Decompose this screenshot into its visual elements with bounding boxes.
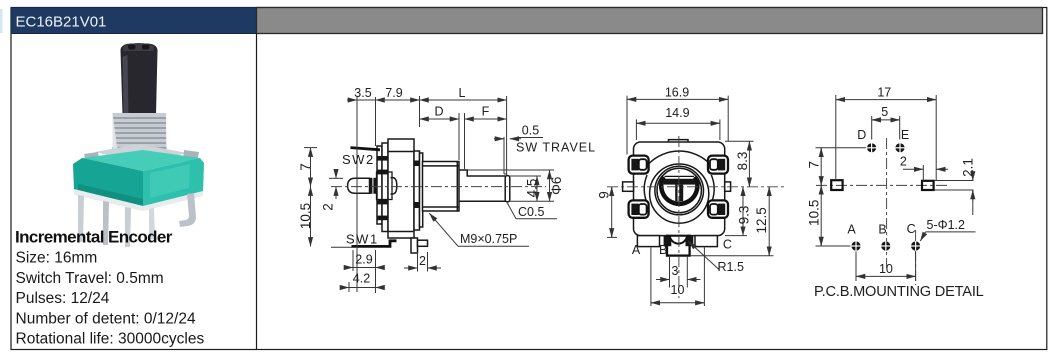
side view dim 2 (foot) xyxy=(404,252,441,272)
pcb hole D xyxy=(867,143,877,153)
side view dim 7 / 10.5 xyxy=(304,148,317,247)
svg-text:14.9: 14.9 xyxy=(665,106,689,120)
svg-text:SW2: SW2 xyxy=(342,152,375,167)
pcb hole A xyxy=(851,241,861,251)
svg-text:C0.5: C0.5 xyxy=(518,205,544,219)
page corner sliver xyxy=(0,9,3,33)
svg-text:Incremental Encoder: Incremental Encoder xyxy=(15,227,173,246)
front boss side arcs xyxy=(644,175,648,205)
svg-text:2: 2 xyxy=(419,254,426,268)
svg-text:2: 2 xyxy=(321,203,336,211)
svg-text:B: B xyxy=(659,243,667,257)
svg-text:4.5: 4.5 xyxy=(525,179,540,198)
side view dim 4.2 xyxy=(341,282,384,292)
front top bump xyxy=(669,140,689,142)
side view dark bands xyxy=(378,156,420,220)
svg-text:P.C.B.MOUNTING DETAIL: P.C.B.MOUNTING DETAIL xyxy=(814,284,984,300)
pcb hole E xyxy=(895,143,905,153)
pcb dim 5 xyxy=(872,116,900,140)
svg-text:A: A xyxy=(847,222,856,236)
front dim 9.3 xyxy=(725,187,747,236)
front outer circles xyxy=(655,166,704,215)
svg-text:2.1: 2.1 xyxy=(960,158,975,177)
svg-text:7: 7 xyxy=(298,163,313,171)
side view SW1 reference line xyxy=(331,246,352,248)
side view label C0.5 xyxy=(507,203,557,219)
photo base white rim xyxy=(74,189,203,211)
pcb dim 2.1 xyxy=(935,171,974,216)
svg-text:Φ6: Φ6 xyxy=(549,177,564,195)
pcb dim 7 / 10.5 xyxy=(816,148,867,246)
pcb dim 10 xyxy=(856,252,916,282)
side view extension lines xyxy=(357,96,554,293)
side view bushing M9 xyxy=(423,162,460,212)
svg-text:Switch Travel: 0.5mm: Switch Travel: 0.5mm xyxy=(16,270,164,287)
svg-text:10: 10 xyxy=(671,283,685,297)
side view dim 0.5 SW TRAVEL xyxy=(494,138,543,139)
front dim 14.9 xyxy=(636,119,720,140)
svg-text:R1.5: R1.5 xyxy=(718,260,744,274)
side view SW1 lever xyxy=(352,241,397,247)
side view dim 2.9 xyxy=(345,250,384,271)
svg-text:SW TRAVEL: SW TRAVEL xyxy=(516,141,596,155)
svg-text:12.5: 12.5 xyxy=(754,207,769,233)
photo threaded bushing xyxy=(113,113,167,150)
side view centerline xyxy=(331,186,546,188)
front boss circle xyxy=(650,164,709,223)
svg-text:7: 7 xyxy=(807,161,822,169)
svg-text:0.5: 0.5 xyxy=(522,124,539,138)
pcb centerlines xyxy=(886,138,888,268)
side view dim phi6 xyxy=(549,170,551,201)
photo black knurled shaft xyxy=(121,44,158,116)
svg-text:9.3: 9.3 xyxy=(737,206,752,225)
svg-text:3.5: 3.5 xyxy=(354,86,371,100)
pcb square holes xyxy=(831,180,842,190)
side view dim 2 (pin offset) xyxy=(329,170,343,200)
side view mounting leg and foot xyxy=(411,238,428,253)
svg-text:10.5: 10.5 xyxy=(298,203,313,229)
svg-text:M9×0.75P: M9×0.75P xyxy=(460,232,517,246)
front corner tabs xyxy=(629,156,728,218)
front center detent box xyxy=(664,235,694,256)
front dim 16.9 xyxy=(627,96,728,155)
svg-text:17: 17 xyxy=(877,86,891,100)
svg-text:A: A xyxy=(632,243,641,257)
side view dim 3.5 7.9 L xyxy=(347,99,507,101)
pcb hole B xyxy=(881,241,891,251)
svg-text:10: 10 xyxy=(879,262,893,276)
photo bent hook pin xyxy=(179,193,196,227)
svg-text:E: E xyxy=(901,128,909,142)
pcb label 5-phi1.2 xyxy=(920,232,975,241)
svg-text:2: 2 xyxy=(900,155,907,169)
front body square xyxy=(634,142,725,236)
header blue bar EC16B21V01 xyxy=(11,8,257,34)
photo metal top plate xyxy=(95,144,187,164)
front dim 10 xyxy=(651,248,705,307)
svg-text:7.9: 7.9 xyxy=(385,86,402,100)
front T slot xyxy=(664,176,695,201)
pcb dim 2 xyxy=(903,165,948,181)
svg-text:4.2: 4.2 xyxy=(353,272,370,286)
front dim 12.5 xyxy=(690,187,774,256)
svg-text:F: F xyxy=(482,105,490,119)
product photo: encoder xyxy=(73,43,204,247)
side view dim D F xyxy=(420,118,507,120)
svg-text:Size: 16mm: Size: 16mm xyxy=(16,250,98,267)
svg-text:3: 3 xyxy=(672,264,679,278)
svg-text:D: D xyxy=(857,128,866,142)
svg-text:D: D xyxy=(434,105,443,119)
photo pins xyxy=(78,195,84,242)
side view face recess + bearing xyxy=(377,172,397,200)
svg-text:8.3: 8.3 xyxy=(735,152,750,171)
front dim 3 xyxy=(656,256,701,288)
svg-text:EC16B21V01: EC16B21V01 xyxy=(16,14,107,31)
svg-text:C: C xyxy=(723,238,732,252)
front mid tabs xyxy=(623,182,634,191)
side view shaft xyxy=(459,170,510,202)
svg-text:B: B xyxy=(878,222,886,236)
left panel text xyxy=(15,227,204,347)
side view dim 4.5 xyxy=(536,176,538,201)
svg-text:Number of detent: 0/12/24: Number of detent: 0/12/24 xyxy=(16,310,196,327)
side view SW2 lever xyxy=(351,148,381,150)
side view actuator pin xyxy=(348,178,377,194)
front dark ring xyxy=(661,177,697,204)
svg-text:Pulses: 12/24: Pulses: 12/24 xyxy=(16,290,110,307)
front dim 8.3 xyxy=(725,141,754,187)
side view label M9x0.75P xyxy=(429,213,529,246)
svg-text:9: 9 xyxy=(597,191,612,199)
front feet xyxy=(637,236,659,247)
svg-text:SW1: SW1 xyxy=(346,232,379,247)
front centerlines xyxy=(607,186,787,188)
svg-text:2.9: 2.9 xyxy=(355,253,372,267)
front dome arc xyxy=(649,151,710,163)
svg-text:16.9: 16.9 xyxy=(665,85,689,99)
svg-text:L: L xyxy=(459,86,466,100)
svg-text:5-Φ1.2: 5-Φ1.2 xyxy=(927,218,966,232)
front label R1.5 xyxy=(688,241,719,269)
header gray bar xyxy=(257,8,1043,34)
svg-text:Rotational life: 30000cycles: Rotational life: 30000cycles xyxy=(16,330,205,347)
side view body slabs xyxy=(377,139,423,238)
front dim 9 left xyxy=(607,187,617,238)
svg-text:5: 5 xyxy=(881,105,888,119)
pcb dim 17 xyxy=(836,95,936,180)
svg-text:10.5: 10.5 xyxy=(807,200,822,226)
photo teal body xyxy=(82,150,200,171)
pcb hole C xyxy=(911,241,921,251)
panel divider xyxy=(256,34,258,350)
svg-text:C: C xyxy=(907,222,916,236)
